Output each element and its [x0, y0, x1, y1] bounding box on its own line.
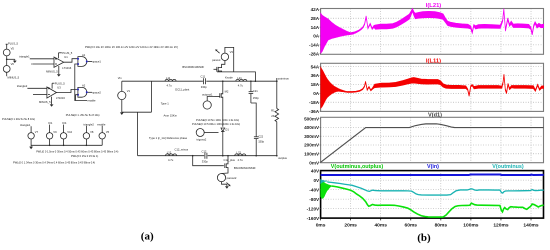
svg-text:120ms: 120ms	[493, 223, 509, 229]
svg-text:18A: 18A	[311, 82, 320, 87]
wire switch node to bottom rail	[222, 132, 224, 156]
svg-text:4.7u: 4.7u	[167, 83, 173, 87]
svg-text:-18A: -18A	[309, 100, 320, 105]
svg-text:20ms: 20ms	[344, 223, 357, 229]
gate driver arrow at V11	[227, 183, 231, 187]
svg-text:80ms: 80ms	[435, 223, 448, 229]
svg-text:C21: C21	[253, 89, 258, 93]
voltage source V5b	[99, 126, 105, 146]
trace I(L11) main band	[348, 74, 544, 96]
svg-text:100ms: 100ms	[463, 223, 479, 229]
voltage source V2 (driver outpout1)	[203, 97, 214, 110]
wire output bus lower	[276, 122, 278, 156]
MOSFET M2 (rectifier upper)	[215, 81, 223, 127]
voltage source V9	[46, 125, 52, 146]
wire M3 source to driver V11	[222, 171, 229, 174]
ground at source row	[29, 145, 33, 149]
svg-text:Vin: Vin	[118, 76, 122, 80]
top rail wire (primary) left part	[122, 80, 203, 82]
svg-text:-160V: -160V	[307, 216, 320, 221]
voltage source V7	[28, 126, 34, 145]
svg-text:-80V: -80V	[309, 197, 320, 202]
bottom rail wire (secondary) right part	[208, 155, 277, 157]
A1 input pin 2 (blue port)	[77, 63, 79, 65]
svg-text:U1: U1	[64, 55, 68, 59]
svg-text:DC11_plant: DC11_plant	[175, 87, 189, 91]
ground below U2	[50, 104, 54, 106]
svg-text:4.7u: 4.7u	[168, 158, 174, 162]
svg-text:PLUS_5: PLUS_5	[55, 81, 66, 85]
MOSFET M1 (high side)	[214, 61, 225, 72]
plot pane 2 frame and grid	[321, 63, 544, 111]
svg-text:Type 1 [c_1m] Reference phase: Type 1 [c_1m] Reference phase	[149, 136, 188, 140]
svg-text:2K: 2K	[271, 114, 274, 118]
wire output bus upper	[276, 81, 278, 108]
svg-text:14A: 14A	[311, 25, 320, 30]
plot pane 3 frame and grid	[321, 117, 544, 162]
svg-text:triangle1: triangle1	[19, 55, 30, 59]
svg-text:4.7u: 4.7u	[238, 83, 244, 87]
voltage source V8	[83, 126, 89, 146]
svg-text:outplus: outplus	[278, 156, 287, 160]
op-amp U1 comparator LT1016	[54, 57, 64, 67]
wire 0 to U1 -input	[33, 63, 54, 65]
U1 positive supply stub to PLUS_5	[59, 53, 62, 59]
plot pane 1 frame and grid	[321, 9, 544, 55]
svg-text:V9: V9	[53, 130, 57, 134]
capacitor C12 (series, plates)	[205, 153, 207, 159]
svg-text:V(outminus,outplus): V(outminus,outplus)	[331, 164, 384, 170]
AND gate A2	[78, 87, 87, 97]
svg-text:40V: 40V	[311, 169, 320, 174]
label outminus	[277, 76, 290, 81]
svg-text:V(d1): V(d1)	[428, 112, 442, 118]
wire down to secondary return rail	[137, 112, 139, 156]
svg-text:330p: 330p	[202, 159, 208, 163]
svg-text:V6: V6	[11, 62, 15, 66]
svg-text:PWL(0 0 1.34ms 0 30ms 0.4 34ms: PWL(0 0 1.34ms 0 30ms 0.4 34ms 0.4 60ms …	[13, 161, 95, 165]
svg-text:L21: L21	[237, 76, 242, 80]
wire A2 lower input to enable net	[76, 95, 78, 101]
wire enable net from A1 lower input down to enable label	[75, 64, 87, 101]
svg-text:triangle2: triangle2	[17, 84, 28, 88]
svg-text:140ms: 140ms	[523, 223, 539, 229]
svg-text:KI4: KI4	[62, 121, 67, 125]
inductor L21	[236, 79, 247, 81]
svg-text:V(outminus): V(outminus)	[492, 164, 524, 170]
svg-text:Arun 15Km: Arun 15Km	[164, 113, 178, 117]
svg-text:space1: space1	[92, 60, 101, 64]
svg-text:PWL[0 0 10u 2V 100m 2V 100.1m: PWL[0 0 10u 2V 100m 2V 100.1m 2V 120m 2V…	[85, 45, 178, 49]
svg-text:C12_minus: C12_minus	[175, 147, 189, 151]
resistor R1	[275, 109, 279, 122]
svg-text:PULSE(0 1 20s 5u 5u 8 10s): PULSE(0 1 20s 5u 5u 8 10s)	[2, 117, 35, 121]
common bottom wire of source row	[31, 144, 102, 146]
bottom rail wire (secondary) left part	[138, 155, 205, 157]
svg-text:PULSE(0 10 5.001m 100n 100n 1.: PULSE(0 10 5.001m 100n 100n 1.3s 10s)	[192, 122, 240, 126]
wire M1 source to rail corner	[217, 72, 255, 81]
voltage source V1 (input source)	[118, 91, 126, 112]
svg-text:L12: L12	[167, 150, 172, 154]
wire 0 to U2 -input	[33, 93, 47, 95]
plot 3 y-axis labels	[304, 116, 321, 165]
svg-text:MINUS_5: MINUS_5	[8, 75, 20, 79]
U1 negative supply stub	[58, 66, 60, 74]
wire A2 output to space2	[88, 91, 92, 93]
svg-text:I(L11): I(L11)	[426, 58, 441, 64]
svg-text:V5: V5	[11, 46, 15, 50]
svg-text:0ms: 0ms	[316, 223, 326, 229]
ground (midpoint of V5/V6)	[13, 59, 17, 63]
capacitor C22	[254, 137, 259, 156]
svg-text:-40V: -40V	[309, 188, 320, 193]
trace I(L21) startup oscillation	[321, 13, 354, 54]
svg-text:R1: R1	[271, 109, 275, 113]
inductor L22	[235, 154, 246, 156]
op-amp U2 comparator LT1016	[47, 87, 57, 98]
voltage source V11 (driver panout2)	[217, 174, 225, 182]
svg-text:C12: C12	[202, 149, 207, 153]
svg-text:triangle1: triangle1	[20, 123, 31, 127]
svg-text:outminus: outminus	[278, 76, 290, 80]
voltage source V6	[3, 66, 10, 77]
svg-text:Knode: Knode	[225, 76, 233, 80]
svg-text:LT1016: LT1016	[56, 96, 65, 100]
wire C21 to C22 branch	[251, 103, 256, 137]
wire lower branch to M3 gate	[193, 156, 224, 166]
top rail wire (primary) right part	[206, 80, 276, 82]
svg-text:54A: 54A	[311, 64, 320, 69]
voltage source V3 (high-side driver)	[221, 53, 228, 60]
trace V(d1)	[321, 124, 544, 163]
AND gate A1	[78, 57, 87, 67]
svg-text:V8: V8	[90, 130, 94, 134]
svg-text:60ms: 60ms	[405, 223, 418, 229]
svg-text:V10: V10	[67, 130, 72, 134]
voltage source V5	[3, 44, 10, 56]
svg-text:PULSE(0 10 5m 100n 100n 1.3s 1: PULSE(0 10 5m 100n 100n 1.3s 10s)	[196, 118, 239, 122]
wire U2 output to gate A2	[57, 89, 78, 92]
svg-text:400mV: 400mV	[304, 125, 320, 130]
wire V1 minus to tank return	[122, 111, 152, 113]
junction dots on top rail	[222, 80, 278, 82]
MOSFET M3 (rectifier lower)	[225, 156, 228, 171]
A2 input pin 2 (blue port)	[77, 94, 79, 96]
svg-text:42A: 42A	[311, 7, 320, 12]
trace I(L11) startup oscillation	[321, 67, 348, 109]
svg-text:300mV: 300mV	[304, 134, 320, 139]
svg-text:0mV: 0mV	[309, 160, 320, 165]
diode D1	[221, 128, 225, 132]
svg-text:36A: 36A	[311, 73, 320, 78]
svg-text:C22: C22	[258, 134, 263, 138]
svg-text:enable: enable	[87, 99, 96, 103]
svg-text:I(L21): I(L21)	[426, 3, 442, 9]
svg-text:BSC060N10NS3F: BSC060N10NS3F	[182, 65, 204, 69]
wire A1 output to space1	[88, 61, 92, 63]
svg-text:PULSE(0 1 .25s 5u 5u 8 10s): PULSE(0 1 .25s 5u 5u 8 10s)	[66, 113, 100, 117]
svg-text:panout2: panout2	[227, 176, 237, 180]
svg-text:500mV: 500mV	[304, 116, 320, 121]
svg-text:trigona2: trigona2	[197, 138, 207, 142]
inductor L11	[165, 79, 176, 81]
junction dots on bottom rail	[192, 155, 278, 157]
junction dots on source row wire	[49, 145, 87, 147]
trace V(outminus)	[327, 182, 543, 195]
svg-text:V3: V3	[230, 50, 234, 54]
wire primary left leg	[150, 81, 152, 112]
svg-text:(a): (a)	[141, 231, 154, 243]
svg-text:40ms: 40ms	[374, 223, 387, 229]
svg-text:-120V: -120V	[307, 206, 320, 211]
svg-text:PLUS_5: PLUS_5	[62, 51, 73, 55]
svg-text:150p: 150p	[253, 96, 259, 100]
trace V(outminus) startup oscillation	[321, 179, 328, 184]
svg-text:PWL(0 0 1.5ms 0 30ms 0.4 50ms: PWL(0 0 1.5ms 0 30ms 0.4 50ms 0.43 60ms …	[36, 150, 118, 154]
plot pane 4 frame and grid	[321, 171, 544, 219]
voltage source V10	[60, 125, 66, 146]
ground below U1	[57, 74, 61, 76]
capacitor C21 branch from top rail	[249, 81, 254, 103]
svg-text:U3: U3	[57, 85, 61, 89]
A2 output pin (blue port)	[86, 91, 88, 93]
inductor L12	[166, 154, 177, 156]
plot 2 y-axis labels	[309, 64, 321, 114]
svg-text:200mV: 200mV	[304, 143, 320, 148]
svg-text:V7: V7	[35, 130, 39, 134]
wire to midpoint ground	[7, 58, 15, 60]
wire V5 to V6	[6, 56, 8, 66]
svg-text:150p: 150p	[258, 140, 264, 144]
svg-text:V(in): V(in)	[427, 164, 439, 170]
wire Vin corner into source V1	[121, 81, 123, 91]
svg-text:D1: D1	[225, 127, 229, 131]
svg-text:330p: 330p	[201, 85, 207, 89]
trace I(L21) main band	[351, 9, 544, 35]
svg-text:outpout1: outpout1	[202, 93, 213, 97]
svg-text:triangle2: triangle2	[84, 122, 95, 126]
svg-text:V5: V5	[106, 130, 110, 134]
svg-text:A1: A1	[82, 53, 86, 57]
svg-text:enable: enable	[97, 122, 106, 126]
svg-text:PLUS_5: PLUS_5	[8, 42, 19, 46]
wire V11 to ground	[222, 182, 227, 187]
wire U1 output to gate A1	[64, 59, 78, 63]
U2 positive supply stub to PLUS_5	[52, 83, 54, 88]
svg-text:Type 1: Type 1	[161, 101, 170, 105]
svg-text:space2: space2	[92, 90, 101, 94]
svg-text:(b): (b)	[417, 232, 431, 244]
svg-text:-28A: -28A	[309, 52, 320, 57]
ground at V1 minus	[120, 112, 124, 115]
plot 1 y-axis labels	[309, 7, 321, 57]
svg-text:28A: 28A	[311, 16, 320, 21]
svg-text:LT1016: LT1016	[62, 66, 71, 70]
wire triangle2 to U2 +input	[27, 87, 47, 89]
svg-text:4.7u: 4.7u	[238, 158, 244, 162]
svg-text:C12_plus: C12_plus	[224, 158, 236, 162]
ground below V11	[225, 186, 229, 189]
svg-text:A2: A2	[82, 84, 86, 88]
svg-text:100mV: 100mV	[304, 152, 320, 157]
time axis labels	[316, 218, 539, 229]
svg-text:MINUS_5: MINUS_5	[39, 100, 51, 104]
svg-text:V1: V1	[127, 89, 131, 93]
svg-text:0V: 0V	[313, 178, 320, 183]
svg-text:MINUS_5: MINUS_5	[46, 70, 58, 74]
gate driver arrow at V3	[215, 49, 219, 53]
trace V(outminus,outplus)	[332, 186, 544, 217]
svg-text:PWL(0 0 15s 0 15.3s 1): PWL(0 0 15s 0 15.3s 1)	[71, 154, 98, 158]
svg-text:-14A: -14A	[309, 43, 320, 48]
svg-text:M2: M2	[225, 89, 229, 93]
svg-text:BSC060N10NS3F: BSC060N10NS3F	[234, 166, 256, 170]
svg-text:KI1: KI1	[48, 121, 53, 125]
svg-text:0A: 0A	[313, 34, 320, 39]
svg-text:-36A: -36A	[309, 109, 320, 114]
capacitor C11 (series, plates)	[204, 78, 206, 84]
svg-text:L22: L22	[237, 150, 242, 154]
plot 4 y-axis labels	[307, 169, 321, 221]
svg-text:0A: 0A	[313, 91, 320, 96]
U2 negative supply stub	[51, 97, 53, 105]
wire V3 drain loop	[225, 47, 234, 72]
svg-text:panout: panout	[212, 58, 220, 62]
voltage source V4 (trigona2)	[196, 129, 218, 137]
A1 output pin (blue port)	[86, 61, 88, 63]
A1 input pin 1 (blue port)	[77, 58, 79, 60]
trace V(outminus,outplus) startup oscillation	[321, 181, 332, 199]
A2 input pin 1 (blue port)	[77, 89, 79, 91]
node junction between V5 and V6	[6, 59, 8, 61]
svg-text:C11: C11	[201, 75, 206, 79]
wire triangle1 to U1 +input	[30, 58, 54, 60]
trace V(in)	[321, 174, 544, 177]
svg-text:L11: L11	[166, 76, 171, 80]
